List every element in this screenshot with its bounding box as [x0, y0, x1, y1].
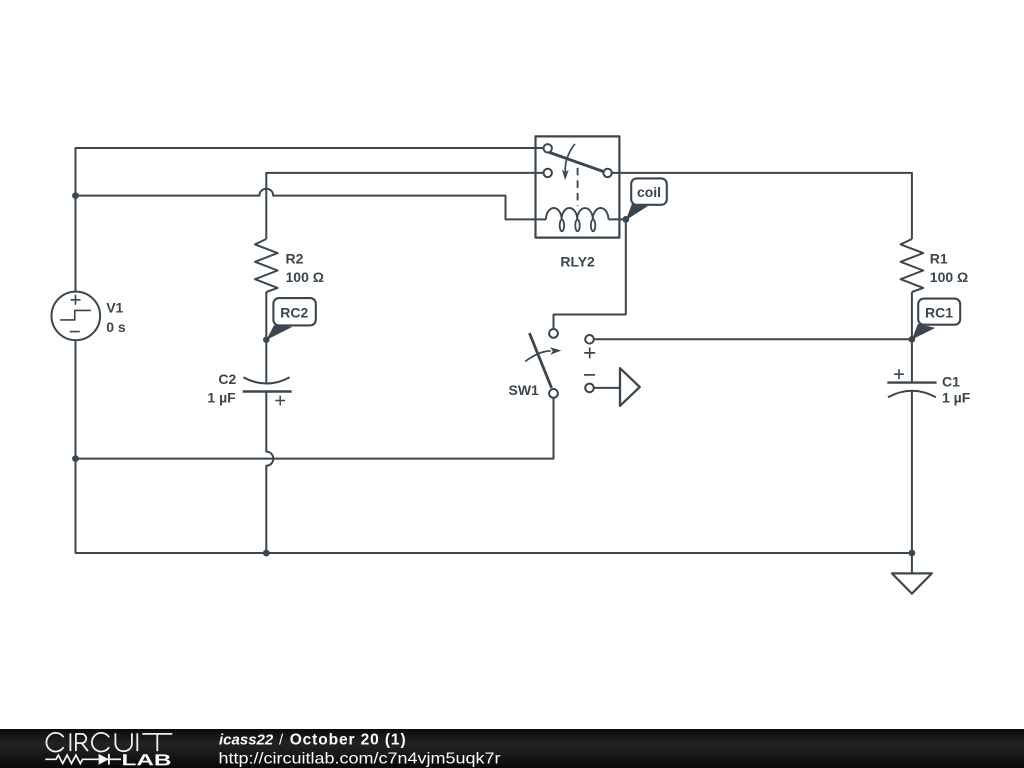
node: RC1 labelled node	[909, 336, 916, 343]
CircuitLab logo resistor-diode glyph	[45, 754, 121, 765]
svg-text:RC2: RC2	[280, 305, 308, 321]
node: junction V1 top rail / row C	[72, 192, 79, 199]
svg-text:100 Ω: 100 Ω	[930, 269, 968, 285]
wire: left rail top + top row to relay common	[76, 148, 544, 292]
label C2 value	[207, 371, 236, 405]
relay coil sense probe (+/- terminals with arrow)	[584, 335, 640, 406]
svg-text:1 µF: 1 µF	[942, 390, 971, 406]
svg-text:C2: C2	[218, 371, 236, 387]
wire: left rail bottom + bottom row	[76, 340, 912, 553]
wire: R2 bottom to C2 top	[265, 292, 267, 383]
node: coil node dot	[622, 216, 629, 223]
capacitor C2 (polarized)	[243, 377, 292, 405]
svg-text:C1: C1	[942, 373, 960, 389]
svg-text:V1: V1	[106, 300, 123, 316]
relay RLY2	[536, 136, 620, 237]
svg-text:0 s: 0 s	[106, 319, 126, 335]
label C1 value	[942, 373, 971, 405]
wire: C1 bottom to bottom row	[911, 391, 913, 553]
svg-text:R2: R2	[286, 251, 304, 267]
svg-text:RLY2: RLY2	[560, 254, 595, 270]
node: junction C2 branch / bottom row	[263, 550, 270, 557]
resistor R2	[255, 239, 278, 292]
svg-text:RC1: RC1	[925, 304, 953, 320]
wire: probe minus lead	[594, 387, 620, 389]
svg-text:SW1: SW1	[509, 382, 540, 398]
footer title: icass22 / October 20 (1)	[219, 731, 407, 748]
callout flag coil	[626, 178, 667, 220]
resistor R1	[901, 239, 924, 292]
wire: row E from left rail to SW1 bottom	[76, 398, 554, 459]
wire: row D probe+ to RC1 node	[594, 338, 912, 340]
CircuitLab logo wordmark CIRCUIT	[46, 733, 172, 752]
node: RC2 labelled node	[263, 336, 270, 343]
callout flag RC2	[266, 298, 316, 340]
capacitor C1 (polarized)	[887, 369, 936, 397]
label V1 value	[106, 300, 126, 335]
label R2 value	[286, 251, 324, 285]
wire: R1 bottom to C1 top	[911, 292, 913, 383]
wire: coil right lead	[608, 218, 625, 220]
footer bar	[0, 729, 1024, 768]
svg-text:http://circuitlab.com/c7n4vjm5: http://circuitlab.com/c7n4vjm5uqk7r	[219, 751, 502, 768]
node: junction left rail / row E	[72, 455, 79, 462]
svg-text:October 20 (1): October 20 (1)	[290, 731, 407, 748]
label R1 value	[930, 251, 968, 285]
svg-text:R1: R1	[930, 251, 948, 267]
switch SW1	[525, 329, 561, 398]
svg-text:LAB: LAB	[121, 752, 171, 768]
svg-text:100 Ω: 100 Ω	[286, 269, 324, 285]
callout flag RC1	[912, 299, 960, 340]
ground symbol	[892, 573, 932, 593]
wire: coil node down and over to SW1 top	[554, 219, 626, 329]
wire: C2 bottom to bottom row (hop over row E)	[266, 392, 273, 554]
wire: R2 top to relay NC contact (row B left)	[266, 173, 543, 239]
svg-text:1 µF: 1 µF	[207, 389, 236, 405]
svg-text:icass22: icass22	[219, 731, 274, 748]
node: junction ground	[909, 550, 916, 557]
wire: row C from V1+ to relay coil left (hop over R2 branch)	[76, 189, 547, 220]
voltage source V1	[52, 292, 101, 341]
wire: relay pole to R1 top (row B right)	[612, 173, 912, 239]
svg-text:coil: coil	[637, 184, 661, 200]
wire: ground stub	[911, 553, 913, 573]
